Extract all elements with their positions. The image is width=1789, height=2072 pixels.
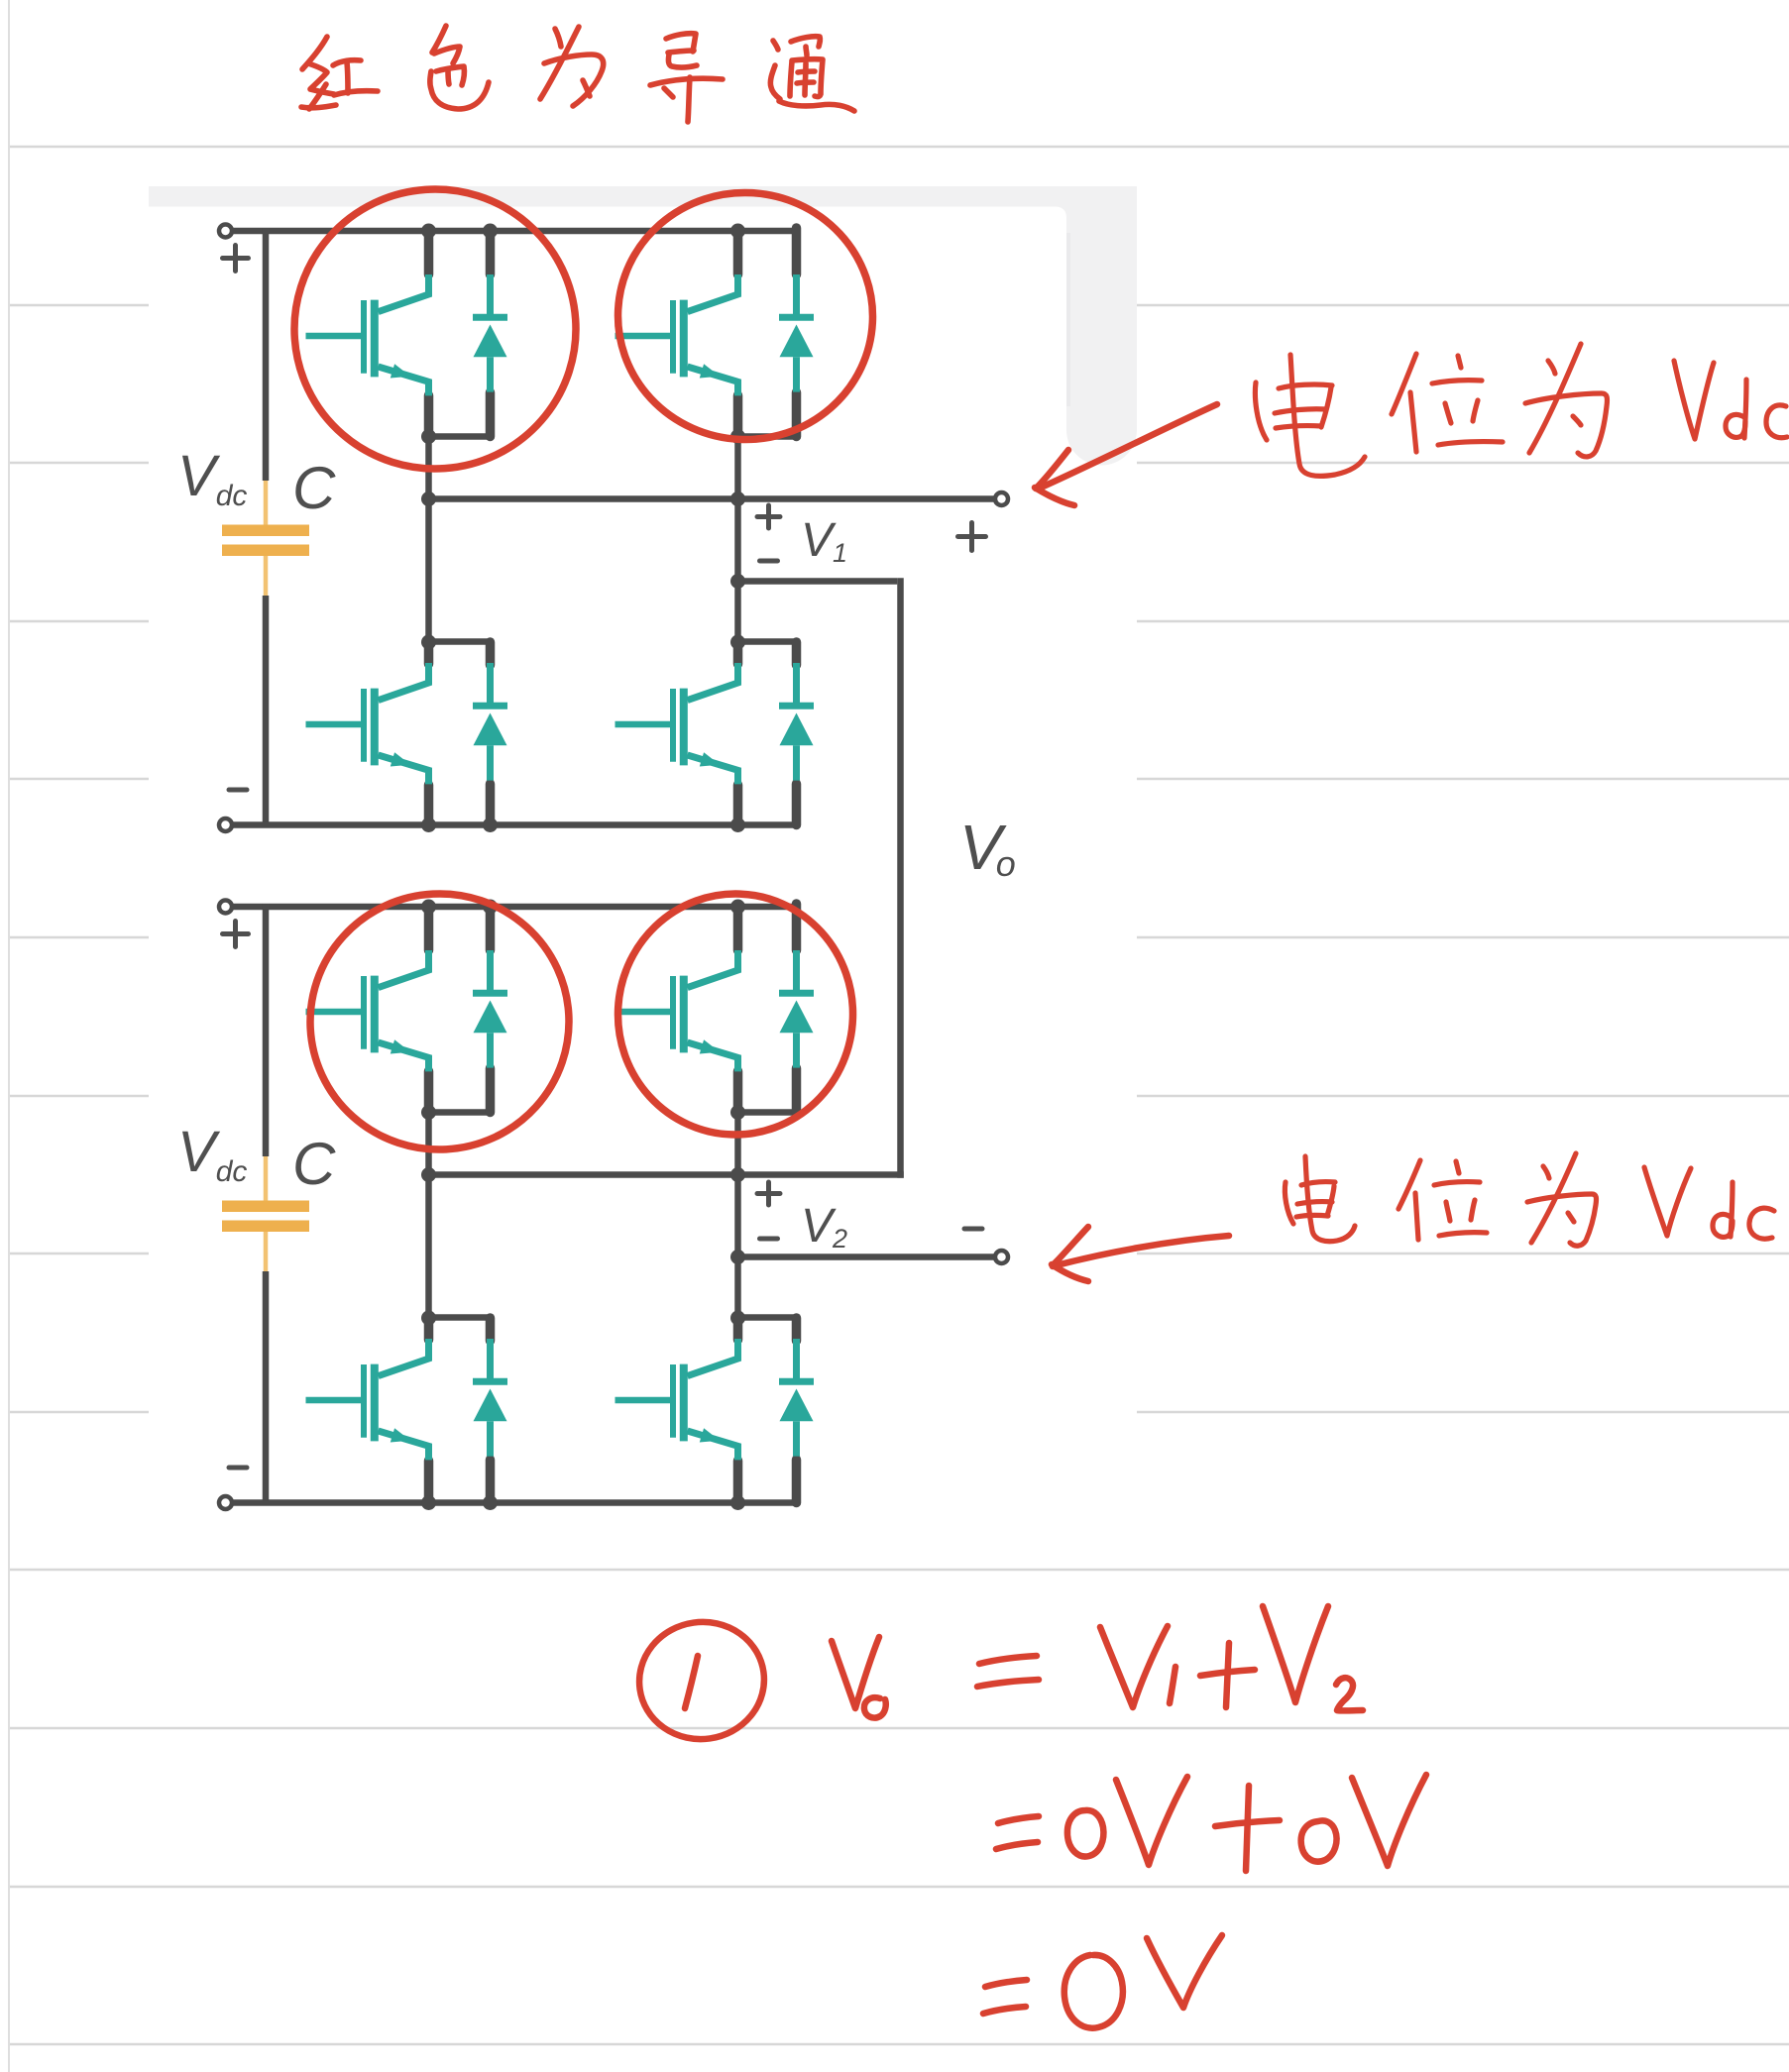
- label + of V1 polarity: [757, 505, 780, 528]
- svg-text:C: C: [292, 455, 336, 521]
- label - of V2 polarity: [760, 1237, 778, 1242]
- node V1+ output terminal: [995, 492, 1008, 505]
- wire bottom bus of bridge 2: [232, 1499, 797, 1506]
- wire right leg vertical (phase B): [734, 437, 741, 643]
- wire top bus of bridge 2: [232, 904, 797, 911]
- handwritten circled 1: [631, 1614, 771, 1747]
- wire stubs upper-right cell: [733, 231, 743, 274]
- handwritten + (row2): [1215, 1820, 1280, 1826]
- handwritten annotation-2 char 电: [1285, 1182, 1293, 1224]
- transistor Q1 (IGBT): [306, 274, 429, 395]
- diode D7: [473, 1339, 507, 1457]
- diode D4: [779, 663, 814, 781]
- wire top bus of bridge 1: [232, 228, 797, 235]
- wire V2- output: [738, 1254, 996, 1260]
- wire stubs upper-right cell: [733, 907, 743, 950]
- wire lower-left cell elbow: [429, 1314, 494, 1321]
- wire left leg vertical (phase A): [425, 437, 432, 643]
- handwritten = (row3): [985, 1980, 1027, 1987]
- transistor Q3 (IGBT): [306, 663, 429, 784]
- handwritten title char 为: [555, 29, 561, 47]
- diode D3: [473, 663, 507, 781]
- handwritten = (row1): [979, 1656, 1037, 1664]
- wire upper-right cell elbow: [738, 1109, 800, 1116]
- junction V2- node: [730, 1250, 745, 1264]
- transistor Q6 (IGBT): [615, 950, 738, 1071]
- red circle highlight 1 (bridge1 upper-left pair): [285, 179, 586, 478]
- red circle highlight 4 (bridge2 upper-right pair): [614, 890, 856, 1139]
- handwritten = (row2): [998, 1816, 1039, 1823]
- label - at V2 terminal: [964, 1227, 982, 1232]
- wire upper-left cell elbow: [429, 1109, 494, 1116]
- handwritten V2: [1263, 1606, 1328, 1702]
- wire left DC bus lower segment: [263, 1271, 270, 1506]
- diode D5: [473, 950, 507, 1068]
- diode D8: [779, 1339, 814, 1457]
- transistor Q8 (IGBT): [615, 1339, 738, 1460]
- red arrow 2 to V2- terminal: [1053, 1236, 1229, 1266]
- wire bottom bus of bridge 1: [232, 821, 797, 828]
- handwritten annotation-1 char 为: [1548, 361, 1555, 374]
- handwritten annotation-2 char 位: [1398, 1160, 1420, 1209]
- wire V1 phase output (bridge1 mid): [429, 495, 996, 502]
- junction dots bridge 1: [421, 224, 436, 239]
- wire stubs lower-left cell: [424, 642, 434, 664]
- handwritten annotation-1 char 电: [1255, 382, 1267, 440]
- wire right leg vertical (phase B): [734, 1113, 741, 1319]
- transistor Q7 (IGBT): [306, 1339, 429, 1460]
- wire upper-right cell elbow: [738, 433, 800, 440]
- capacitor C of bridge 2: [222, 1156, 309, 1271]
- handwritten title char 红: [302, 37, 327, 69]
- transistor Q5 (IGBT): [306, 950, 429, 1071]
- wire lower-left cell elbow: [429, 638, 494, 645]
- handwritten 0 (row2 first): [1067, 1810, 1104, 1857]
- junction phase nodes on bridge2 mid wire: [421, 1167, 436, 1182]
- junction dots bridge 2: [421, 900, 436, 915]
- node DC+ terminal of bridge 2: [219, 901, 232, 914]
- red arrow 1 to V1+ terminal: [1039, 404, 1217, 489]
- red circle highlight 3 (bridge2 upper-left pair): [303, 887, 575, 1155]
- wire stubs lower-right cell: [733, 1318, 743, 1340]
- wire lower-right cell elbow: [738, 1314, 800, 1321]
- label + at V1 terminal: [958, 523, 986, 551]
- wire left DC bus upper segment: [263, 904, 270, 1156]
- label + (DC plus): [223, 246, 249, 272]
- wire V2 phase wire (bridge2 mid): [429, 1171, 904, 1178]
- handwritten title char 异: [666, 34, 696, 52]
- node V2- output terminal: [995, 1251, 1008, 1263]
- label - (DC minus): [229, 788, 247, 793]
- junction V1- node: [730, 574, 745, 589]
- handwritten 0 (row2 second): [1301, 1820, 1337, 1861]
- handwritten title char 通: [773, 41, 778, 50]
- wire left DC bus lower segment: [263, 596, 270, 828]
- wire left leg vertical (phase A): [425, 1113, 432, 1319]
- screenshot grey header band and right strip: [149, 186, 1137, 466]
- node DC- terminal of bridge 1: [219, 818, 232, 831]
- transistor Q2 (IGBT): [615, 274, 738, 395]
- wire stubs lower-left cell: [424, 1318, 434, 1340]
- handwritten title char 色: [432, 26, 446, 53]
- diode D1: [473, 274, 507, 392]
- label + of V2 polarity: [757, 1182, 780, 1205]
- red circle highlight 2 (bridge1 upper-right pair): [612, 186, 879, 446]
- handwritten + (row1): [1200, 1670, 1255, 1676]
- screenshot white canvas: [149, 186, 1137, 1556]
- wire upper-left cell elbow: [429, 433, 494, 440]
- wire V1- to Vo riser: [738, 578, 898, 585]
- wire stubs upper-left cell: [424, 231, 434, 274]
- handwritten annotation-1 Vdc: [1674, 361, 1714, 439]
- handwritten V (row3): [1147, 1935, 1222, 2008]
- handwritten annotation-2 Vdc: [1644, 1167, 1691, 1236]
- label + (DC plus): [223, 922, 249, 947]
- handwritten annotation-2 char 为: [1543, 1166, 1549, 1178]
- handwritten V1: [1100, 1626, 1168, 1707]
- wire left DC bus upper segment: [263, 228, 270, 481]
- wire Vo riser vertical: [897, 578, 904, 1178]
- transistor Q4 (IGBT): [615, 663, 738, 784]
- handwritten 0 (row3): [1064, 1955, 1123, 2028]
- node DC+ terminal of bridge 1: [219, 225, 232, 238]
- wire stubs upper-left cell: [424, 907, 434, 950]
- handwritten V0: [832, 1637, 879, 1708]
- junction phase nodes on V1 wire: [421, 491, 436, 506]
- label - (DC minus): [229, 1466, 247, 1471]
- diode D2: [779, 274, 814, 392]
- label - of V1 polarity: [760, 559, 778, 564]
- wire lower-right cell elbow: [738, 638, 800, 645]
- node DC- terminal of bridge 2: [219, 1496, 232, 1509]
- diode D6: [779, 950, 814, 1068]
- handwritten V (row2 second): [1352, 1775, 1426, 1866]
- handwritten annotation-1 char 位: [1392, 354, 1416, 414]
- handwritten V (row2 first): [1116, 1777, 1187, 1865]
- capacitor C of bridge 1: [222, 481, 309, 596]
- notebook vertical margin line: [8, 0, 10, 2072]
- wire stubs lower-right cell: [733, 642, 743, 664]
- svg-text:C: C: [292, 1131, 336, 1197]
